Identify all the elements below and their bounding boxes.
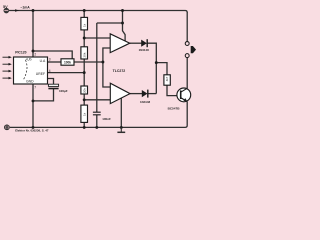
capacitor C2 100nF xyxy=(93,112,111,121)
wire node X up to opamp1 inverting input xyxy=(103,48,111,62)
wire IC GND pin down xyxy=(32,84,34,127)
resistor R4 (divider bottom) 1k xyxy=(81,105,88,122)
wire IC cap pin to 100uF xyxy=(48,79,54,85)
IC dashed arc xyxy=(23,60,27,81)
svg-text:5V: 5V xyxy=(3,5,8,9)
IC input arrow 1 xyxy=(3,56,9,58)
wire divider tap to opamp2 lower input xyxy=(84,99,110,101)
wire node X down to opamp2 input xyxy=(103,62,110,87)
junction node X xyxy=(101,61,104,64)
svg-text:100µF: 100µF xyxy=(59,89,68,93)
svg-text:3: 3 xyxy=(49,58,51,62)
wire opamp2 supply to rail xyxy=(120,98,122,127)
wire D2 to OR node xyxy=(148,93,157,95)
IC input arrow 4 xyxy=(3,77,9,79)
resistor R3 (divider) 20k xyxy=(81,86,88,94)
wire opamp2 output to D2 xyxy=(130,93,142,95)
wire IC pin3 to 100k xyxy=(48,61,62,63)
wire terminal2 to collector xyxy=(186,58,188,89)
IC input arrow 3 xyxy=(3,70,9,72)
capacitor C1 100uF electrolytic xyxy=(48,84,67,93)
junction on 5V rail at pin2 branch xyxy=(32,9,35,12)
svg-text:GND: GND xyxy=(26,79,34,83)
svg-text:20k: 20k xyxy=(82,88,86,93)
diode D2 1N4148 xyxy=(140,90,151,104)
diode D1 1N4148 xyxy=(139,39,150,52)
wire node 5V to 100k right xyxy=(33,51,72,62)
resistor R1 (divider top) 1k xyxy=(81,17,88,30)
svg-text:Elektor Nr. 030236, S. 47: Elektor Nr. 030236, S. 47 xyxy=(15,129,49,133)
load terminal pair top right xyxy=(185,42,196,58)
svg-text:4: 4 xyxy=(49,69,51,73)
wire top-right corner down to load terminal xyxy=(186,12,188,42)
svg-text:7: 7 xyxy=(34,85,36,89)
junction GND pin / 100uF xyxy=(32,99,35,102)
plug arrow xyxy=(191,46,196,53)
svg-text:TLC272: TLC272 xyxy=(113,69,126,73)
wire divider R2-R3 xyxy=(83,59,85,86)
wire divider R3-R4 xyxy=(83,94,85,105)
junction ground rail at divider xyxy=(83,126,86,129)
junction pin2 node xyxy=(32,50,35,53)
junction divider tap lower xyxy=(83,98,86,101)
junction decoupling branch xyxy=(121,22,124,25)
junction ground rail at opamp supply xyxy=(120,126,123,129)
svg-text:1N4148: 1N4148 xyxy=(139,48,150,52)
op-amp U1a xyxy=(110,34,130,53)
svg-text:PIC120: PIC120 xyxy=(15,50,26,54)
wire opamp1 supply from 5V xyxy=(123,11,126,42)
junction ground rail at 100nF xyxy=(95,126,98,129)
wire cap 100nF top xyxy=(96,23,98,112)
svg-text:20k: 20k xyxy=(82,52,86,57)
wire 100uF to GND pin xyxy=(33,89,54,101)
current arrow ~1mA xyxy=(15,5,30,11)
svg-text:UREF: UREF xyxy=(36,72,45,76)
wire divider chain top xyxy=(83,11,85,18)
wire vertical x33 to IC pin2 xyxy=(32,11,34,58)
junction divider tap upper xyxy=(83,37,86,40)
IC input arrow 2 xyxy=(3,63,9,65)
ground symbol xyxy=(117,127,125,132)
svg-text:100k: 100k xyxy=(64,61,71,65)
wire divider R1-R2 xyxy=(83,30,85,47)
wire UREF pin4 xyxy=(48,72,85,74)
junction OR node xyxy=(155,61,158,64)
svg-text:1k: 1k xyxy=(82,23,86,27)
resistor R5 base 4k7 xyxy=(164,75,170,85)
transistor Q1 BC547B xyxy=(168,88,191,111)
wire base resistor to base xyxy=(167,85,181,95)
wire 5V rail top xyxy=(9,11,187,13)
wire OR node to base resistor xyxy=(156,63,167,75)
svg-text:4k7: 4k7 xyxy=(165,76,169,81)
junction on 5V rail at divider xyxy=(83,9,86,12)
wire divider R4 to rail xyxy=(83,122,85,127)
wire OR node vertical xyxy=(155,63,157,94)
junction on 5V rail at opamp supply xyxy=(121,9,124,12)
IC PIC120 xyxy=(14,50,51,89)
wire decoupling 5V branch xyxy=(97,22,123,24)
svg-text:2: 2 xyxy=(34,52,36,56)
wire opamp1 output to D1 xyxy=(130,42,142,44)
svg-text:1N4148: 1N4148 xyxy=(140,100,151,104)
wire D1 to OR node xyxy=(147,43,156,62)
ground terminal xyxy=(4,125,9,130)
wire ground rail xyxy=(10,102,187,128)
resistor 100k xyxy=(61,59,74,65)
resistor R2 (divider) 20k xyxy=(81,47,88,59)
op-amp U1b xyxy=(110,83,130,103)
wire cap 100nF bottom to rail xyxy=(96,115,98,128)
svg-text:U.A: U.A xyxy=(40,59,46,63)
wire 100k to node X xyxy=(74,61,103,63)
svg-text:100nF: 100nF xyxy=(102,117,111,121)
svg-text:1k: 1k xyxy=(82,112,86,116)
junction ground rail at IC xyxy=(32,126,35,129)
supply terminal 5V xyxy=(3,5,9,13)
svg-text:BC547B: BC547B xyxy=(168,107,181,111)
junction divider tap UREF xyxy=(83,71,86,74)
wire divider tap to opamp1 input xyxy=(84,37,110,39)
svg-text:~1mA: ~1mA xyxy=(20,5,30,9)
